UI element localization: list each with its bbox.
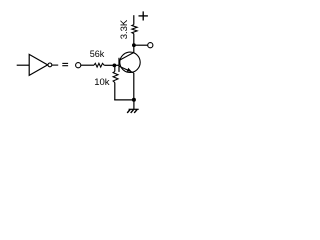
- transistor Q1 base bar: [118, 58, 120, 72]
- resistor R1 56k (horizontal zigzag): [94, 63, 104, 67]
- transistor Q1 collector stroke: [119, 53, 134, 61]
- transistor Q1 emitter stroke: [119, 66, 134, 73]
- transistor Q1 circle: [120, 52, 140, 72]
- node B (junction dot at base): [113, 64, 117, 68]
- op-amp U1 (inverter triangle): [29, 54, 47, 75]
- supply plus sign: [139, 15, 148, 17]
- node C (junction dot at emitter/ground): [132, 98, 136, 102]
- svg-text:10k: 10k: [94, 77, 110, 88]
- inverter output bubble: [48, 63, 52, 67]
- wire: R3 bottom down: [114, 83, 116, 100]
- wire: collector up to node A: [133, 34, 135, 53]
- node: input terminal (open circle): [76, 63, 81, 68]
- wire: inverter output stub: [52, 64, 58, 66]
- wire: emitter down to node C: [133, 73, 135, 100]
- ground (bar with hatches): [129, 108, 139, 110]
- wire: node C to ground: [133, 100, 135, 110]
- wire: node A to output terminal: [134, 44, 148, 46]
- svg-text:56k: 56k: [90, 49, 105, 59]
- wire: inverter input: [17, 64, 30, 66]
- wire: bottom horizontal to node C: [114, 99, 134, 101]
- node: output terminal (open circle): [148, 43, 153, 48]
- wire: node B down to R3: [114, 65, 116, 71]
- resistor R2 3.3K (vertical zigzag): [132, 25, 137, 34]
- node A (junction dot at collector/output): [132, 43, 136, 47]
- equivalence sign =: [62, 62, 68, 64]
- transistor Q1 emitter arrowhead: [127, 68, 132, 72]
- svg-text:3.3K: 3.3K: [119, 19, 130, 39]
- resistor R3 10k (vertical zigzag): [113, 71, 118, 82]
- wire: R2 top to supply: [133, 15, 135, 24]
- wire: R1 to base node: [104, 64, 119, 66]
- wire: terminal to R1: [81, 64, 94, 66]
